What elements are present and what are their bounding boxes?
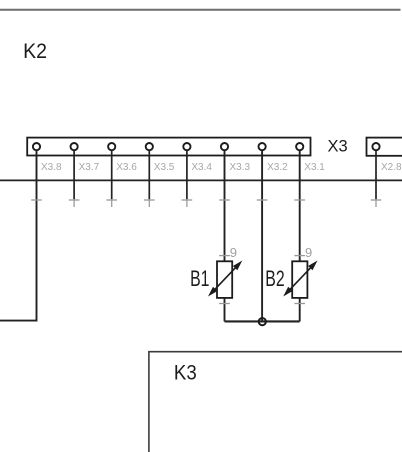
resistor B2 variable arrow: [283, 261, 317, 297]
wire break tick on X2:8 wire: [371, 199, 382, 207]
terminal X3:8 pin circle: [33, 143, 40, 150]
svg-text:X3.3: X3.3: [230, 162, 251, 173]
svg-text:X3.5: X3.5: [154, 162, 175, 173]
wire B2 bottom: [299, 298, 301, 322]
wire break tick on X3:6 wire: [106, 199, 117, 207]
svg-text:X3.6: X3.6: [116, 162, 137, 173]
relay K3 block outline: [149, 352, 402, 452]
svg-text:X3.7: X3.7: [79, 162, 100, 173]
resistor B1 body: [217, 261, 232, 298]
wire break tick on X3:5 wire: [144, 199, 155, 207]
resistor B1 variable arrow: [208, 261, 242, 297]
resistor B2 body: [292, 261, 307, 298]
pin tick above B2: [294, 255, 305, 257]
wire stub from X3:4: [186, 150, 188, 199]
relay K3 label: [174, 362, 197, 385]
pin tick below B1: [219, 303, 230, 305]
terminal block X2 (partial, right edge): [367, 138, 402, 156]
svg-text:K2: K2: [23, 39, 47, 63]
terminal X3:6 pin circle: [108, 143, 115, 150]
svg-text:B1: B1: [190, 268, 209, 292]
wire from X3:2 down to junction: [261, 150, 263, 321]
wire connecting B1 and B2 bottoms: [225, 320, 300, 322]
wire from X3:3 down to B1: [224, 150, 226, 261]
wire horizontal bus line: [0, 179, 402, 181]
pin tick above B1: [219, 255, 230, 257]
svg-text:X3: X3: [328, 136, 348, 155]
wire break tick on X3:1 wire: [294, 199, 305, 201]
terminal X3:3 pin circle: [221, 143, 228, 150]
resistor B2 label: [265, 268, 284, 292]
wire break tick on X3:2 wire: [257, 199, 268, 201]
wire stub from X3:5: [148, 150, 150, 199]
pin tick below B2: [294, 303, 305, 305]
svg-text:X2.8: X2.8: [381, 162, 402, 173]
wire break tick on X3:3 wire: [219, 199, 230, 201]
relay K2 label: [23, 39, 47, 63]
terminal X3:7 pin circle: [71, 143, 78, 150]
wire stub from X2:8: [375, 150, 377, 199]
terminal block X3 name label: [328, 136, 348, 155]
terminal X3:5 pin circle: [146, 143, 153, 150]
wire break tick on X3:7 wire: [69, 199, 80, 207]
terminal X3:1 pin circle: [296, 143, 303, 150]
terminal block X3: [27, 138, 310, 156]
svg-text:X3.8: X3.8: [41, 162, 62, 173]
svg-text:B2: B2: [265, 268, 284, 292]
svg-text:X3.4: X3.4: [191, 162, 212, 173]
terminal X2:8 pin circle: [372, 143, 379, 150]
wire break tick on X3:4 wire: [182, 199, 193, 207]
wire from X3:1 down to B2: [299, 150, 301, 261]
wire stub from X3:7: [73, 150, 75, 199]
svg-text:X3.1: X3.1: [304, 162, 325, 173]
svg-text:9: 9: [230, 245, 237, 260]
svg-text:K3: K3: [174, 362, 197, 385]
wire from X3:8 down and left off page: [0, 150, 37, 320]
terminal X3:4 pin circle: [183, 143, 190, 150]
resistor B1 label: [190, 268, 209, 292]
wire break tick on X3:8 wire: [31, 199, 42, 201]
junction node circle: [259, 318, 266, 325]
svg-text:X3.2: X3.2: [267, 162, 288, 173]
terminal X3:2 pin circle: [259, 143, 266, 150]
wire stub from X3:6: [111, 150, 113, 199]
wire top boundary line of block K2: [0, 9, 401, 11]
svg-text:9: 9: [305, 245, 312, 260]
wire B1 bottom: [224, 298, 226, 322]
